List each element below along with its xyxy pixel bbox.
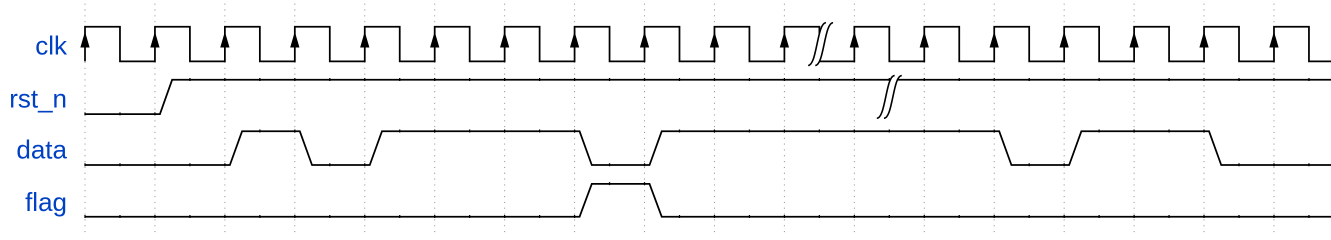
- signal data waveform: [85, 131, 1331, 165]
- signal flag waveform: [85, 184, 1331, 217]
- svg-text:data: data: [16, 135, 67, 165]
- gap on rst_n: [877, 76, 902, 119]
- signal rst_n waveform: [85, 80, 1331, 114]
- brick joint ticks: [85, 78, 1309, 218]
- signal clk waveform: [85, 27, 1331, 62]
- svg-text:flag: flag: [25, 187, 67, 217]
- svg-text:clk: clk: [35, 31, 68, 61]
- clk rising-edge arrows: [82, 35, 1278, 47]
- svg-text:rst_n: rst_n: [9, 83, 67, 113]
- gap on clk: [808, 23, 833, 66]
